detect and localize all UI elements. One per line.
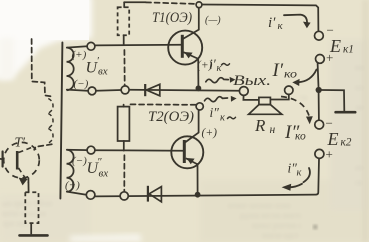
svg-text:ск: ск bbox=[355, 178, 363, 187]
svg-text:Т′: Т′ bbox=[15, 135, 27, 150]
svg-text:рдлоа веснк ииетс: рдлоа веснк ииетс bbox=[240, 211, 302, 220]
svg-text:R: R bbox=[254, 116, 266, 135]
svg-text:(+): (+) bbox=[65, 180, 80, 192]
svg-text:i′: i′ bbox=[268, 15, 276, 31]
svg-text:″: ″ bbox=[97, 156, 102, 168]
svg-text:ин: ин bbox=[355, 63, 364, 72]
svg-text:(−): (−) bbox=[74, 78, 89, 90]
svg-text:ык ералс тdroп: ык ералс тdroп bbox=[2, 199, 53, 208]
svg-text:ве: ве bbox=[356, 103, 364, 112]
svg-text:вх: вх bbox=[99, 168, 109, 180]
svg-text:Т1(ОЭ): Т1(ОЭ) bbox=[152, 10, 192, 26]
svg-text:к: к bbox=[217, 63, 222, 74]
svg-text:(—): (—) bbox=[205, 15, 221, 26]
svg-text:к2: к2 bbox=[341, 137, 352, 149]
svg-text:ан: ан bbox=[355, 163, 364, 172]
svg-text:ко: ко bbox=[284, 69, 297, 81]
svg-text:ко: ко bbox=[295, 131, 306, 143]
svg-text:−: − bbox=[327, 23, 334, 38]
svg-text:Т2(ОЭ): Т2(ОЭ) bbox=[148, 109, 194, 125]
svg-text:нпеле одст: нпеле одст bbox=[262, 231, 299, 240]
svg-text:тв: тв bbox=[300, 93, 307, 102]
svg-text:+: + bbox=[326, 147, 333, 162]
svg-text:i″: i″ bbox=[210, 105, 220, 120]
svg-text:к1: к1 bbox=[343, 44, 354, 56]
svg-text:−: − bbox=[326, 116, 333, 131]
svg-text:ол: ол bbox=[355, 83, 363, 92]
svg-text:н: н bbox=[270, 124, 276, 136]
svg-text:к: к bbox=[297, 168, 302, 179]
svg-text:к: к bbox=[278, 20, 284, 32]
svg-text:итиог шеаюн нлао: итиог шеаюн нлао bbox=[228, 201, 291, 210]
svg-text:+: + bbox=[326, 50, 333, 65]
svg-text:к: к bbox=[220, 113, 225, 124]
svg-text:I′: I′ bbox=[272, 60, 284, 81]
svg-text:(+): (+) bbox=[202, 127, 218, 139]
svg-text:(+): (+) bbox=[72, 49, 87, 61]
svg-text:Вых.: Вых. bbox=[233, 73, 271, 89]
svg-text:ваиал роетнк с: ваиал роетнк с bbox=[252, 221, 302, 230]
svg-text:вх: вх bbox=[98, 66, 108, 78]
svg-text:(−): (−) bbox=[72, 155, 87, 167]
